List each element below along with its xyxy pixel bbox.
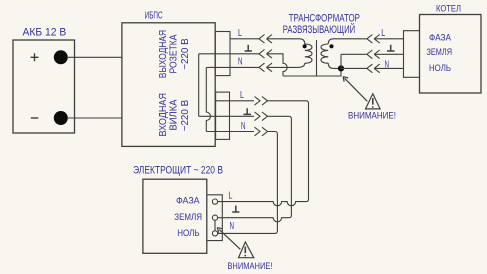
UPS box ИБПС: [122, 23, 215, 147]
ground symbol (input row): [244, 108, 252, 114]
plus sign: [31, 53, 39, 61]
warning arrow to bonding node: [343, 77, 367, 102]
ground symbol (output row): [245, 45, 252, 51]
wire output ground to base (hop over N): [267, 54, 288, 76]
svg-text:ЭЛЕКТРОЩИТ ~ 220 В: ЭЛЕКТРОЩИТ ~ 220 В: [133, 165, 223, 177]
jumper wire PE to N terminal: [214, 220, 216, 231]
terminal circle N: [212, 231, 217, 236]
battery terminal +: [54, 50, 68, 64]
panel terminal bracket: [207, 195, 223, 241]
exclamation mark: [372, 98, 374, 105]
transformer T1 primary winding: [305, 44, 312, 63]
boiler box КОТЕЛ: [420, 15, 482, 94]
svg-text:L: L: [228, 190, 232, 201]
transformer T1 secondary winding: [321, 44, 328, 63]
svg-text:РАЗВЯЗЫВАЮЩИЙ: РАЗВЯЗЫВАЮЩИЙ: [283, 23, 355, 36]
secondary bottom lead wire: [328, 63, 341, 68]
svg-text:L: L: [381, 28, 385, 39]
secondary polarity dot: [329, 44, 333, 48]
wire boiler N: [374, 67, 403, 69]
svg-text:ЗЕМЛЯ: ЗЕМЛЯ: [174, 212, 202, 222]
warning triangle (transformer): [366, 94, 381, 109]
primary polarity dot: [303, 44, 307, 48]
terminal circle ground: [212, 215, 217, 220]
panel box ЭЛЕКТРОЩИТ: [143, 179, 207, 253]
connector boiler N: [367, 64, 380, 73]
battery terminal -: [54, 111, 68, 125]
connector input L (plug-pin): [255, 97, 268, 106]
svg-text:КОТЕЛ: КОТЕЛ: [436, 4, 461, 14]
wire boiler L: [374, 38, 403, 40]
wire output ground row: [199, 53, 259, 55]
svg-text:АКБ 12 В: АКБ 12 В: [23, 27, 67, 39]
wire boiler ground: [374, 53, 403, 55]
wire output N to transformer: [267, 63, 305, 67]
connector boiler ground: [367, 50, 380, 59]
ground base wire under transformer: [283, 68, 341, 76]
wire input L to panel: [218, 101, 309, 206]
svg-text:N: N: [230, 221, 235, 232]
wire battery + to UPS: [68, 56, 122, 58]
wire input N row: [206, 131, 254, 133]
boiler terminal bracket: [404, 31, 420, 78]
bonding junction node: [338, 65, 344, 71]
input plug housing block: [216, 92, 230, 139]
svg-text:НОЛЬ: НОЛЬ: [429, 63, 451, 73]
svg-text:~220 В: ~220 В: [179, 100, 191, 132]
terminal circle L: [212, 199, 217, 204]
warning arrow to PE-N jumper: [217, 228, 240, 250]
connector output N: [259, 63, 272, 72]
svg-text:~220 В: ~220 В: [179, 38, 191, 70]
wire earth row to boiler connector: [341, 53, 367, 55]
secondary top lead wire: [328, 39, 367, 44]
connector output ground: [259, 50, 272, 59]
transformer core: [316, 40, 318, 76]
warning triangle (panel): [239, 242, 254, 258]
wire input N to panel: [218, 132, 278, 234]
wire N row to boiler connector: [341, 67, 367, 69]
wire output N row: [206, 66, 259, 68]
svg-text:L: L: [238, 28, 242, 39]
svg-text:N: N: [241, 121, 246, 132]
wire input L row: [216, 100, 254, 102]
wire ground bond up to earth row: [340, 54, 342, 68]
ground symbol (panel row): [232, 206, 239, 213]
svg-text:ЗЕМЛЯ: ЗЕМЛЯ: [427, 47, 453, 57]
wire input ground row: [199, 115, 254, 117]
connector output L (socket-pin): [259, 35, 272, 44]
svg-text:ВНИМАНИЕ!: ВНИМАНИЕ!: [227, 261, 272, 271]
wire battery - to UPS: [68, 117, 122, 119]
battery box АКБ 12 В: [13, 40, 75, 133]
svg-text:ФАЗА: ФАЗА: [176, 195, 200, 205]
svg-text:ФАЗА: ФАЗА: [429, 33, 451, 43]
wire output L row: [230, 38, 259, 40]
svg-text:N: N: [238, 57, 243, 68]
svg-text:ТРАНСФОРМАТОР: ТРАНСФОРМАТОР: [289, 13, 360, 25]
minus sign: [31, 117, 39, 119]
connector input N: [255, 127, 268, 136]
wire input ground to panel: [218, 116, 292, 222]
svg-text:L: L: [240, 90, 244, 101]
exclamation mark: [244, 247, 246, 254]
wire output L to transformer: [267, 39, 305, 44]
internal ground pass-through wire: [198, 54, 200, 117]
internal neutral pass-through wire (hop over ground): [206, 67, 210, 131]
connector input ground: [255, 112, 268, 121]
ground symbol (boiler row): [387, 45, 395, 51]
svg-text:НОЛЬ: НОЛЬ: [177, 228, 199, 238]
connector boiler L: [367, 35, 380, 44]
svg-text:ИБПС: ИБПС: [145, 10, 163, 21]
svg-text:ВНИМАНИЕ!: ВНИМАНИЕ!: [348, 111, 396, 121]
output socket housing block: [215, 32, 230, 76]
